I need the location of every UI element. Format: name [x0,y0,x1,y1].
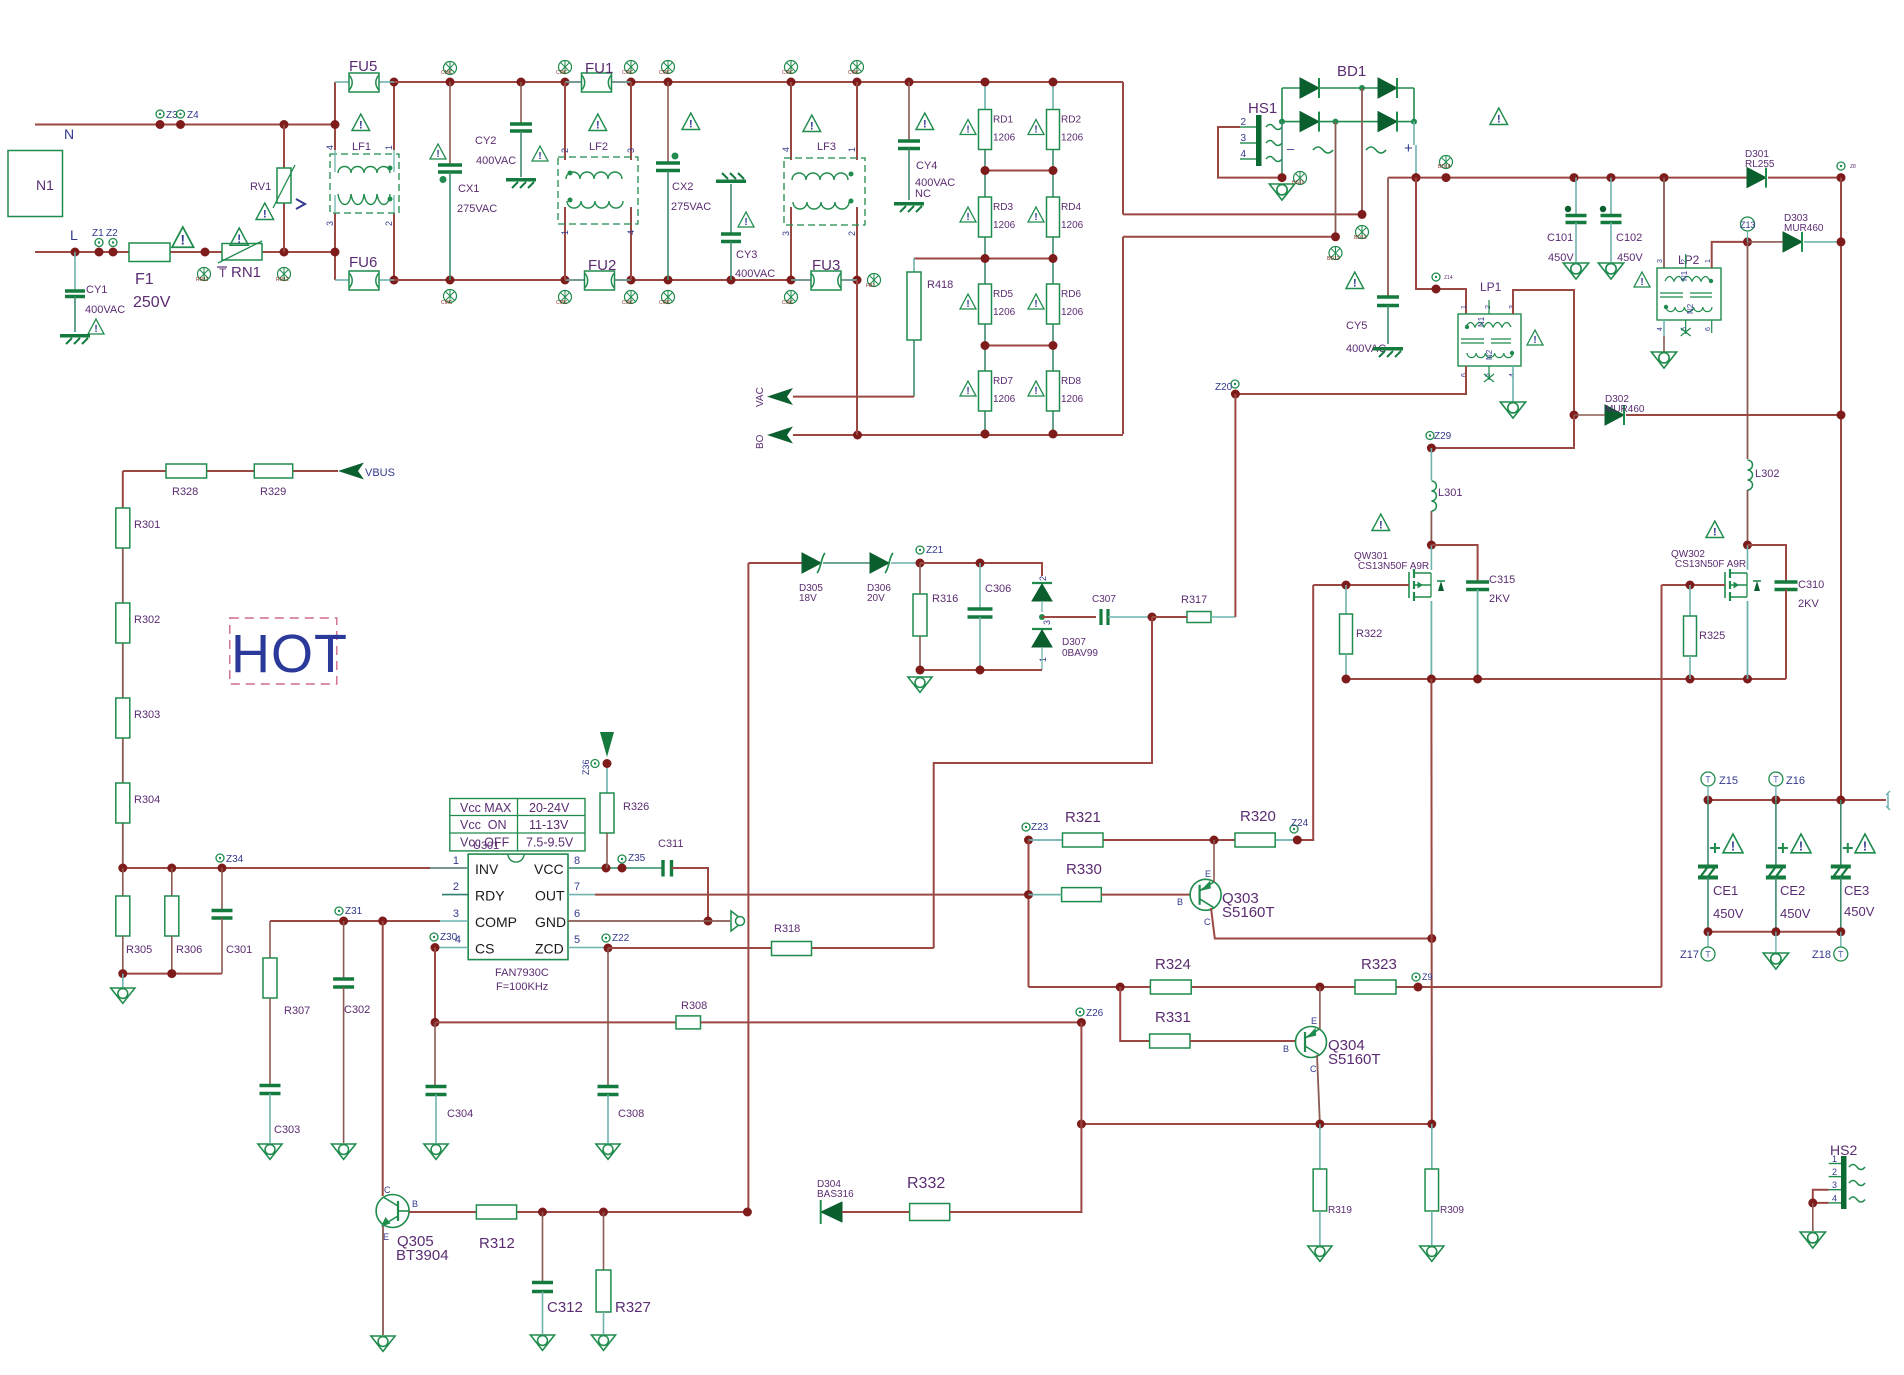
capacitor C312 [542,1212,544,1281]
test mark bottom rail x565 [559,291,572,304]
svg-text:Z22: Z22 [612,933,630,944]
wire BD1 plus down [1413,122,1415,145]
svg-text:D307: D307 [1062,637,1086,648]
svg-text:1: 1 [1832,1154,1837,1164]
diode D303 [1712,242,1748,268]
svg-text:11-13V: 11-13V [529,818,569,832]
warning triangle BD1 [1490,108,1508,125]
svg-text:CY1: CY1 [86,284,107,296]
node Z15 [1701,772,1715,786]
svg-text:CMC: CMC [556,70,568,76]
svg-text:C312: C312 [547,1299,583,1316]
svg-text:CS13N50F A9R: CS13N50F A9R [1675,559,1746,570]
resistor RD1 [979,110,992,150]
svg-text:3: 3 [1042,620,1052,625]
warning triangle CX2 [682,113,700,130]
svg-text:1: 1 [560,230,570,235]
svg-text:Z14: Z14 [1444,275,1453,281]
choke LF1 [330,154,399,213]
wire Q305 emitter to ground [382,1226,384,1335]
node Z31 [335,907,343,915]
warning triangle LP2 [1634,272,1650,288]
test mark bottom rail CX1 [444,290,457,303]
svg-text:C306: C306 [985,583,1011,595]
capacitor C303 [260,1084,281,1088]
node Z35 [618,855,626,863]
capacitor C301 [221,868,223,909]
resistor RD4 [1047,197,1060,237]
svg-text:ZCD: ZCD [535,941,564,957]
svg-text:2KV: 2KV [1489,593,1510,605]
svg-text:1206: 1206 [1061,307,1084,318]
wire LP1 pin6 to Z20 [1235,366,1466,394]
svg-text:C: C [384,1185,391,1195]
svg-text:LP1: LP1 [1480,280,1502,294]
svg-text:CMC: CMC [848,70,860,76]
junction F1-RN1 [201,248,210,257]
test mark rail x631 [625,61,638,74]
node Z36 [591,760,599,768]
svg-text:HS11: HS11 [1292,180,1304,186]
svg-text:CMC: CMC [659,300,671,306]
warning triangle RD6 [1028,294,1044,310]
svg-text:RD1: RD1 [993,115,1013,126]
test mark BD1 gnd [1294,172,1307,185]
wire D305 drop [747,563,749,1212]
svg-text:R312: R312 [479,1235,515,1252]
junction RD1-RD3 link [985,170,1053,172]
capacitor CX1 [446,78,455,87]
choke LF2 [564,82,566,160]
wire Q303 collector [1211,908,1432,939]
warning triangle RV1 [256,203,274,220]
test mark RN1-2 [278,268,291,281]
svg-text:–: – [1287,141,1295,156]
zener D305 [802,553,821,573]
resistor R308 [676,1016,701,1029]
choke LF3 [787,78,796,87]
svg-text:CS13N50F A9R: CS13N50F A9R [1358,561,1429,572]
svg-text:R309: R309 [1440,1205,1464,1216]
wire Z23 vertical [1028,840,1030,987]
svg-text:C308: C308 [618,1108,644,1120]
wire INV line [123,867,468,869]
warning triangle CY2 [532,146,548,162]
wire BD1 minus to ground [1281,122,1283,178]
capacitor C307 [1042,616,1096,618]
svg-text:C101: C101 [1547,232,1573,244]
ground CY4 [894,202,924,212]
transistor Q304 [1296,1027,1327,1058]
svg-text:4: 4 [1240,149,1246,160]
svg-text:R330: R330 [1066,861,1102,878]
wire Q304 collector [1317,1055,1320,1124]
node Z4 [177,110,185,118]
svg-text:CS: CS [475,941,494,957]
svg-text:+: + [1404,140,1413,157]
wire OUT pin7 [568,894,595,896]
wire BD1 lower-left down [1335,122,1337,237]
svg-text:R320: R320 [1240,808,1276,825]
svg-text:3: 3 [626,148,636,153]
svg-text:CX2: CX2 [672,181,693,193]
svg-text:275VAC: 275VAC [457,203,497,215]
svg-text:N2: N2 [1485,349,1494,360]
connector HS1 [1256,115,1262,166]
fuse FU5 [335,81,349,83]
svg-text:400VAC: 400VAC [735,268,775,280]
resistor R326 [606,763,608,793]
node Z21 [916,559,925,568]
svg-text:450V: 450V [1780,906,1811,921]
ground CY2 [506,178,536,188]
svg-text:CY5: CY5 [1346,320,1367,332]
svg-text:C302: C302 [344,1004,370,1016]
svg-text:FU1: FU1 [585,60,613,77]
wire VBUS run [123,470,166,472]
svg-text:R331: R331 [1155,1009,1191,1026]
warning triangle RD1 [960,120,976,136]
thermistor RN1 [222,244,262,261]
wire ZCD pin5 [568,947,608,949]
svg-text:B: B [412,1199,418,1209]
svg-text:450V: 450V [1713,906,1744,921]
svg-text:R329: R329 [260,486,286,498]
resistor R322 [1345,585,1347,614]
wire QW301 source [1430,601,1432,679]
svg-text:L301: L301 [1438,487,1462,499]
warning triangle F1 [172,227,194,248]
ground C101 [1563,263,1588,279]
junction LP2 feed [1660,173,1669,182]
resistor RD6 [1047,284,1060,324]
wire GND pin6 [568,920,730,922]
diode D302 [1570,411,1579,420]
svg-text:3: 3 [325,221,335,226]
svg-text:RDY: RDY [475,888,505,904]
svg-text:Z24: Z24 [1291,818,1309,829]
svg-text:GND: GND [535,914,566,930]
svg-text:CY4: CY4 [916,160,937,172]
svg-text:R321: R321 [1065,809,1101,826]
svg-text:CMC: CMC [782,300,794,306]
svg-text:CMC: CMC [782,70,794,76]
svg-text:RL255: RL255 [1745,159,1775,170]
capacitor CE2 [1775,800,1777,866]
node Z24 [1290,825,1298,833]
wire top rail [394,81,582,83]
svg-text:N: N [64,126,74,142]
svg-text:C311: C311 [658,838,683,850]
svg-text:FU3: FU3 [812,257,840,274]
resistor R306 [171,868,173,896]
wire CE bottom line [1708,931,1841,933]
node Z16 [1769,772,1783,786]
svg-text:FU5: FU5 [349,58,377,75]
wire bottom collector bus [1081,1123,1431,1125]
svg-text:R418: R418 [927,279,953,291]
svg-text:Z21: Z21 [926,545,944,556]
node Z1 [95,239,103,247]
svg-text:COMP: COMP [475,914,517,930]
svg-text:5: 5 [574,934,580,946]
warning triangle LF2 [589,114,607,131]
svg-text:4: 4 [626,230,636,235]
svg-text:1206: 1206 [993,307,1016,318]
node Z18 [1840,932,1842,947]
resistor R301 [116,508,130,548]
svg-text:Z29: Z29 [1434,431,1452,442]
wire RD column 2 [1052,82,1054,110]
resistor RD7 [979,371,992,411]
wire QW302 gate drop [1661,585,1663,987]
svg-text:RD7: RD7 [993,376,1013,387]
svg-text:CE3: CE3 [1844,883,1869,898]
test mark BD1-2 [1329,247,1342,260]
svg-text:2: 2 [847,231,857,236]
svg-text:Z18: Z18 [1812,949,1831,961]
node Z30 [431,943,440,952]
ground R327 [591,1335,615,1350]
resistor RD2 [1047,110,1060,150]
svg-text:VAC: VAC [755,387,766,407]
svg-text:C: C [1310,1064,1317,1074]
svg-text:8: 8 [574,855,580,867]
ground R309 [1420,1246,1444,1261]
wire source bus 679 [1346,678,1786,680]
wire zener feed [748,562,802,564]
resistor R312 [476,1205,516,1219]
wire C307 node down [934,617,1152,948]
ground HS2 [1800,1232,1825,1248]
capacitor C310 [1748,545,1787,581]
warning triangle RD3 [960,207,976,223]
test mark rail BD [1440,156,1453,169]
wire QW301 gate drop [1297,585,1313,840]
test mark bottom rail x791 [785,291,798,304]
resistor R330 [1062,888,1102,902]
transistor Q303 [1190,879,1221,910]
inductor L301 [1430,448,1432,480]
wire RDY stub [442,894,468,896]
svg-text:3: 3 [1240,133,1246,144]
svg-text:F=100KHz: F=100KHz [496,981,548,993]
svg-text:Z9: Z9 [1422,972,1433,982]
svg-text:RN1: RN1 [231,264,261,281]
wire CS to R308 [434,948,436,1023]
wire COMP net [270,920,440,922]
wire L line [35,251,129,253]
svg-text:FU6: FU6 [349,254,377,271]
svg-text:CY2: CY2 [475,135,496,147]
resistor RD3 [979,197,992,237]
fuse F1 [129,243,170,262]
warning triangle CX1 [430,144,446,160]
svg-text:CMC: CMC [441,70,453,76]
svg-text:NC: NC [915,188,931,200]
svg-text:R328: R328 [172,486,198,498]
svg-text:B: B [1283,1044,1289,1054]
resistor R304 [116,783,130,823]
ground CY5 [1373,347,1403,357]
svg-text:C303: C303 [274,1124,300,1136]
svg-text:Z2: Z2 [106,228,118,239]
svg-text:400VAC: 400VAC [476,155,516,167]
wire Q303 emitter [1213,840,1215,882]
svg-text:Z16: Z16 [1786,775,1805,787]
varistor RV1 [280,120,289,129]
svg-text:1: 1 [1461,305,1468,309]
svg-text:S5160T: S5160T [1328,1051,1381,1068]
resistor R302 [116,603,130,643]
wire LP1 pin3 to D302 [1513,290,1574,415]
node Z9 [1412,973,1420,981]
capacitor C101 [1570,173,1579,182]
svg-text:Z31: Z31 [345,906,363,917]
svg-text:Z34: Z34 [226,854,244,865]
svg-text:C102: C102 [1616,232,1642,244]
svg-text:R304: R304 [134,794,160,806]
resistor R309 [1431,1124,1433,1169]
wire bottom of divider [123,973,222,975]
svg-text:HOT: HOT [231,624,348,684]
svg-text:S5160T: S5160T [1222,904,1275,921]
svg-text:N1: N1 [36,177,54,193]
capacitor CE1 [1707,800,1709,866]
diode D301 [1747,168,1766,188]
warning triangle LF3 [803,115,821,132]
svg-text:L: L [70,227,78,243]
svg-text:RD8: RD8 [1061,376,1081,387]
op-amp U301 FAN7930C body [468,854,568,960]
svg-text:RV1: RV1 [250,181,271,193]
svg-text:R327: R327 [615,1299,651,1316]
capacitor CY2 [517,78,526,87]
wire plus rail [1388,177,1747,179]
warning triangle RN1 [230,228,248,246]
wire CS stub [435,947,468,949]
svg-text:3: 3 [781,231,791,236]
svg-text:R301: R301 [134,519,160,531]
resistor R305 [122,868,124,896]
svg-text:4: 4 [1657,327,1664,331]
svg-text:400VAC: 400VAC [85,304,125,316]
svg-text:LF2: LF2 [589,141,608,153]
test mark FU3 right [868,274,881,287]
svg-text:1: 1 [453,855,459,867]
svg-text:Z35: Z35 [628,853,646,864]
ground divider [122,974,124,988]
svg-text:1206: 1206 [993,133,1016,144]
node Z26 [1077,1018,1086,1027]
warning triangle L301 [1372,514,1390,531]
warning triangle CY4 [916,113,934,130]
test mark bottom rail x668 [662,291,675,304]
arrow VAC [793,396,914,398]
resistor R332 [910,1204,950,1221]
svg-text:Z30: Z30 [440,932,458,943]
wire QW301 source drop [1430,679,1432,1124]
warning triangle RD4 [1028,207,1044,223]
warning triangle LF1 [352,114,370,131]
svg-text:R306: R306 [176,944,202,956]
wire RD column 1 [984,82,986,110]
svg-text:20V: 20V [867,593,885,604]
fuse FU2 [561,276,570,285]
wire ZCD run [812,947,934,949]
wire bottom to BD1 [1122,237,1124,434]
capacitor C306 [979,563,981,608]
svg-text:VBUS: VBUS [365,467,395,479]
ground C304 [424,1144,448,1159]
fuse FU6 [335,279,349,281]
svg-text:R322: R322 [1356,628,1382,640]
ground flag GND [731,911,744,931]
svg-text:C310: C310 [1798,579,1824,591]
capacitor C102 [1607,173,1616,182]
svg-text:FU2: FU2 [588,257,616,274]
svg-text:CMC: CMC [622,300,634,306]
ground C102 [1598,263,1623,279]
svg-text:N1: N1 [1680,270,1689,281]
warning triangle CY1 [88,319,104,335]
wire zener bottom bus [920,669,1042,671]
capacitor C308 [607,948,609,1085]
svg-text:N1: N1 [1477,316,1486,327]
svg-text:6: 6 [1705,327,1712,331]
inductor L302 [1747,242,1749,459]
svg-text:CX1: CX1 [458,183,479,195]
wire N line [35,124,335,126]
wire Z26 drop [1080,1023,1082,1125]
node Z34 [216,854,224,862]
transformer LP1 [1458,314,1521,366]
ground R319 [1308,1246,1332,1261]
diode D304 [821,1202,842,1222]
svg-text:1206: 1206 [1061,394,1084,405]
node Z2 [109,239,117,247]
resistor R316 [919,563,921,594]
svg-text:B: B [1177,897,1183,907]
capacitor CY5 [1387,178,1389,296]
wire FU5 branch [334,82,336,150]
svg-text:R323: R323 [1361,956,1397,973]
svg-text:CY3: CY3 [736,249,757,261]
wire Q305 collector [382,921,384,1196]
svg-text:BD1: BD1 [1337,63,1366,80]
svg-text:RD6: RD6 [1061,289,1081,300]
svg-text:1: 1 [1038,657,1048,662]
wire HS1 pin2 to BD1 [1218,127,1282,178]
ground BD1 [1269,184,1294,200]
svg-text:BAS316: BAS316 [817,1189,854,1200]
svg-text:450V: 450V [1844,904,1875,919]
wire HS2 pins 3-4 to ground [1813,1190,1829,1203]
ground LP2 pin4 [1663,320,1665,336]
resistor R329 [254,464,292,478]
junction RD5-RD7 link [985,345,1053,347]
svg-text:E: E [383,1232,389,1242]
warning triangle LP1 [1527,330,1543,346]
svg-text:R316: R316 [932,593,958,605]
junction RD7 bottom [981,430,990,439]
capacitor C315 [1431,545,1477,581]
svg-text:R302: R302 [134,614,160,626]
label HOT [230,618,337,684]
wire VCC pin8 [568,867,662,869]
svg-text:7.5-9.5V: 7.5-9.5V [526,836,574,850]
resistor RD8 [1047,371,1060,411]
